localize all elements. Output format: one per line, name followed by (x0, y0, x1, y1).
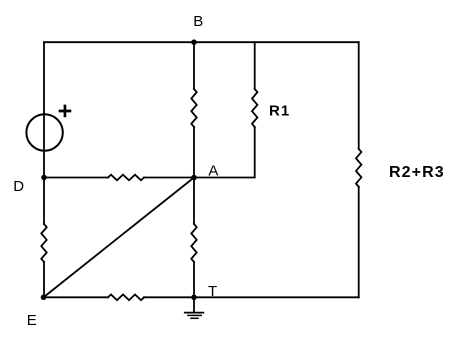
wire from resistor down to node A (193, 127, 195, 178)
wire bottom bus from node E to resistor (44, 296, 109, 298)
svg-text:A: A (208, 162, 218, 179)
wire from node A down to resistor on A-T branch (193, 178, 195, 225)
node D junction dot (41, 175, 47, 181)
wire from node D down to resistor on D-E branch (43, 178, 45, 225)
resistor on wire D-A (108, 175, 144, 181)
node A junction dot (191, 175, 197, 181)
resistor R1 (252, 89, 257, 127)
wire from resistor to node A (144, 177, 194, 179)
svg-text:R2+R3: R2+R3 (389, 164, 445, 181)
wire from top bus down to resistor R1 (254, 42, 256, 89)
wire from node D to resistor on D-A branch (44, 177, 108, 179)
wire from resistor R2+R3 down to bottom bus (358, 187, 360, 297)
resistor on branch A-T (191, 224, 196, 262)
wire bottom bus from resistor through node T to right corner (144, 296, 359, 298)
plus polarity mark of V1 (60, 106, 70, 116)
resistor on wire E-T (108, 295, 144, 301)
svg-text:R1: R1 (269, 103, 290, 120)
resistor R2+R3 (356, 149, 361, 187)
resistor on branch B-A (191, 89, 196, 127)
wire from R1 down then left to node A (194, 127, 255, 178)
wire right side from top bus down to resistor R2+R3 (358, 42, 360, 149)
resistor on branch D-E (41, 224, 46, 262)
node B junction dot (191, 39, 197, 45)
wire diagonal from node A to node E (44, 178, 195, 298)
wire from resistor down to node E (43, 262, 45, 297)
wire from node B down to resistor (193, 42, 195, 89)
node T junction dot (191, 295, 197, 301)
svg-text:T: T (208, 283, 217, 300)
svg-text:B: B (193, 13, 203, 30)
ground symbol at node T (185, 297, 204, 318)
svg-text:D: D (13, 178, 24, 195)
wire left side from top corner down to node D (43, 42, 45, 177)
svg-text:E: E (27, 312, 37, 329)
node E junction dot (41, 295, 47, 301)
wire from resistor down to node T (193, 262, 195, 297)
wire top bus from left corner to right corner (44, 41, 359, 43)
voltage source V1 (26, 114, 62, 150)
